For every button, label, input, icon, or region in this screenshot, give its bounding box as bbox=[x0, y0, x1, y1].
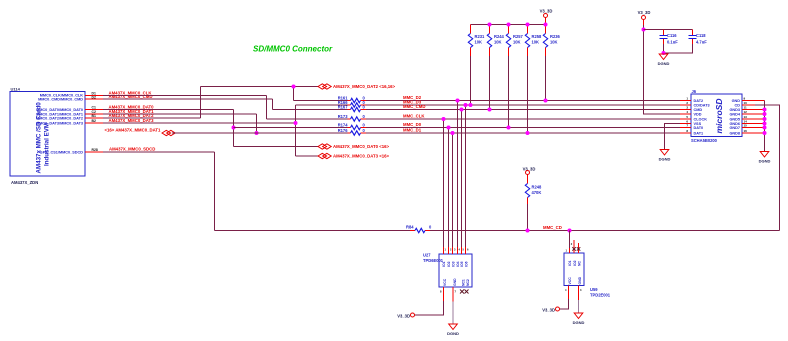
svg-text:R244: R244 bbox=[494, 34, 505, 39]
svg-text:SPI0_CS1/MMC0_SDCD: SPI0_CS1/MMC0_SDCD bbox=[40, 150, 83, 154]
resistor R84 0 bbox=[406, 225, 432, 233]
wire CD pin to right edge loop bbox=[755, 105, 780, 231]
resistor R166 0 bbox=[338, 100, 366, 107]
svg-text:2: 2 bbox=[450, 248, 452, 252]
wire U27 IO2 drop from MMC_D0 bbox=[448, 128, 450, 248]
svg-text:10K: 10K bbox=[475, 40, 483, 45]
resistor R257 10K bbox=[506, 25, 523, 57]
resistor R236 10K bbox=[543, 25, 560, 57]
ESD protection U27 TPD6E001 bbox=[423, 253, 472, 288]
U27 GND wire to DGND bbox=[453, 287, 457, 324]
U59 GND wire to DGND bbox=[579, 286, 583, 313]
svg-text:GND4: GND4 bbox=[729, 112, 740, 116]
svg-text:IO1: IO1 bbox=[568, 260, 572, 266]
svg-text:10K: 10K bbox=[550, 40, 558, 45]
svg-text:0.1uF: 0.1uF bbox=[667, 40, 678, 45]
svg-text:U114: U114 bbox=[11, 87, 21, 92]
junction rail/R257 bbox=[507, 23, 511, 27]
junction rail/R244 bbox=[488, 23, 492, 27]
wire riser CMD bbox=[272, 99, 274, 110]
svg-text:MMC_D1: MMC_D1 bbox=[403, 128, 422, 133]
svg-text:R258: R258 bbox=[532, 34, 543, 39]
svg-text:3: 3 bbox=[686, 106, 688, 110]
svg-text:R231: R231 bbox=[475, 34, 486, 39]
svg-text:3: 3 bbox=[580, 288, 582, 292]
wire MMC0_DAT3 from U114 bbox=[103, 122, 296, 124]
junction DAT1 / MMC_D1 row bbox=[255, 131, 259, 135]
svg-text:DGND: DGND bbox=[658, 61, 670, 66]
svg-text:MMC0_DAT2/MMC0_DAT2: MMC0_DAT2/MMC0_DAT2 bbox=[36, 117, 83, 121]
resistor R244 10K bbox=[487, 25, 504, 57]
junction R236/MMC_D2 bbox=[544, 99, 548, 103]
svg-text:4.7uF: 4.7uF bbox=[696, 40, 707, 45]
svg-text:AM437X_MMC0_SDCD: AM437X_MMC0_SDCD bbox=[109, 147, 155, 152]
wire cap branch bbox=[644, 29, 693, 31]
off-page connector AM437X_MMC0_DAT2 bbox=[318, 84, 396, 89]
svg-text:GND5: GND5 bbox=[729, 117, 740, 121]
svg-text:8: 8 bbox=[440, 290, 442, 294]
svg-text:DAT1: DAT1 bbox=[694, 131, 704, 135]
junctions on ground bus bbox=[763, 108, 767, 136]
junction R244/MMC_CMD bbox=[488, 108, 492, 112]
svg-text:15: 15 bbox=[744, 124, 748, 128]
wire MMC_CMD row left bbox=[273, 109, 348, 111]
svg-text:GND7: GND7 bbox=[729, 126, 740, 130]
wire MMC0_DAT1 from U114 bbox=[103, 113, 257, 115]
wire DAT2 top run to off-page bbox=[201, 86, 319, 88]
junction cap branch bbox=[642, 28, 646, 32]
wire MMC_D0 row left bbox=[234, 127, 348, 129]
wire DAT2 drop to bus bbox=[293, 87, 295, 101]
svg-text:IO2: IO2 bbox=[573, 260, 577, 266]
wire V3_3D down to J6 VDD bbox=[644, 25, 681, 114]
svg-text:2: 2 bbox=[686, 101, 688, 105]
wire MMC0_CLK from U114 to riser bbox=[103, 95, 267, 97]
junction R248/MMC_CD bbox=[526, 229, 530, 233]
junction rail/R258 bbox=[526, 23, 530, 27]
svg-text:CLOCK: CLOCK bbox=[694, 117, 708, 121]
off-page connector AM437X_MMC0_DAT1 bbox=[105, 128, 176, 136]
svg-text:NC1: NC1 bbox=[462, 279, 466, 286]
power V3_3D above R248 bbox=[523, 167, 536, 184]
svg-text:VCC: VCC bbox=[443, 278, 447, 286]
svg-text:1: 1 bbox=[686, 97, 688, 101]
resistor R167 0 bbox=[338, 104, 366, 111]
svg-text:NC: NC bbox=[578, 261, 582, 266]
svg-text:GND: GND bbox=[453, 278, 457, 286]
svg-text:1: 1 bbox=[445, 248, 447, 252]
svg-text:R167: R167 bbox=[338, 104, 349, 109]
wire MMC_D3 row to J6 bbox=[366, 104, 680, 106]
svg-text:7: 7 bbox=[686, 124, 688, 128]
svg-text:MMC0_DAT3/MMC0_DAT3: MMC0_DAT3/MMC0_DAT3 bbox=[36, 121, 83, 125]
svg-text:10K: 10K bbox=[494, 40, 502, 45]
pin stubs U114 (red) bbox=[85, 96, 103, 153]
resistor R248 470K bbox=[525, 184, 542, 205]
svg-text:5: 5 bbox=[463, 248, 465, 252]
svg-text:C118: C118 bbox=[696, 33, 706, 38]
svg-text:10K: 10K bbox=[513, 40, 521, 45]
svg-text:NC2: NC2 bbox=[466, 279, 470, 286]
svg-text:GND8: GND8 bbox=[729, 131, 740, 135]
wire U27 IO4 drop from MMC_D2 bbox=[457, 101, 459, 248]
wire R236 to MMC_D2 bbox=[545, 56, 547, 101]
pin designators on U114 bbox=[92, 92, 98, 152]
capacitor C116 0.1uF bbox=[660, 30, 679, 45]
ground DGND below U27 bbox=[447, 324, 459, 336]
svg-text:U27: U27 bbox=[423, 253, 431, 258]
svg-text:MMC_CD: MMC_CD bbox=[543, 225, 562, 230]
svg-text:SD/MMC0 Connector: SD/MMC0 Connector bbox=[253, 45, 333, 54]
wire J6 ground bus vertical bbox=[764, 101, 766, 152]
wire MMC_D0 row to J6 bbox=[366, 127, 680, 129]
svg-text:10: 10 bbox=[744, 101, 748, 105]
resistor R231 10K bbox=[468, 25, 485, 57]
svg-text:0: 0 bbox=[363, 114, 366, 119]
wire MMC_CLK row to J6 bbox=[366, 118, 680, 120]
wire MMC_CD bottom run bbox=[215, 230, 780, 232]
svg-text:12: 12 bbox=[744, 110, 748, 114]
svg-text:11: 11 bbox=[744, 106, 748, 110]
svg-text:microSD: microSD bbox=[714, 99, 724, 134]
wire MMC_D1 row to J6 bbox=[366, 132, 680, 134]
J6 left pin numbers bbox=[686, 97, 688, 134]
wire R244 to MMC_CMD bbox=[489, 56, 491, 110]
U59 top pin stubs bbox=[570, 240, 579, 253]
capacitor C118 4.7uF bbox=[689, 30, 708, 45]
wire MMC_D1 row left bbox=[172, 132, 348, 134]
wire U27 IO5 drop from MMC_CMD bbox=[461, 110, 463, 248]
wire U27 IO1 drop from MMC_CLK bbox=[443, 119, 445, 247]
svg-text:7: 7 bbox=[455, 290, 457, 294]
svg-text:IO1: IO1 bbox=[442, 261, 446, 267]
resistor R161 0 bbox=[338, 95, 366, 102]
ground DGND below C116 bbox=[658, 54, 670, 66]
svg-text:8: 8 bbox=[686, 129, 688, 133]
junction rail/R236 bbox=[544, 23, 548, 27]
svg-text:R236: R236 bbox=[550, 34, 561, 39]
svg-text:MMC_CMD: MMC_CMD bbox=[403, 104, 425, 109]
svg-text:V3_3D: V3_3D bbox=[540, 9, 553, 14]
wire DAT2 riser up bbox=[200, 87, 202, 119]
resistor R174 0 bbox=[338, 122, 366, 129]
junction D1 tap bbox=[451, 131, 455, 135]
wire DAT0 riser down to off-page row bbox=[233, 110, 235, 147]
wire DAT3 off-page run bbox=[296, 155, 319, 157]
wire R231 to MMC_D3 bbox=[470, 56, 472, 105]
svg-text:DAT0: DAT0 bbox=[694, 126, 704, 130]
junction CLK tap bbox=[442, 117, 446, 121]
junction R258/MMC_D1 bbox=[526, 131, 530, 135]
svg-text:MMC0_DAT0/MMC0_DAT0: MMC0_DAT0/MMC0_DAT0 bbox=[36, 108, 83, 112]
svg-text:R257: R257 bbox=[513, 34, 524, 39]
junction cap gnd bbox=[662, 51, 666, 55]
svg-text:R84: R84 bbox=[406, 225, 414, 230]
svg-text:DGND: DGND bbox=[447, 331, 459, 336]
junction DAT0 / MMC_D0 tap bbox=[232, 126, 236, 130]
connector J6 microSD bbox=[691, 89, 742, 143]
svg-text:IO2: IO2 bbox=[447, 261, 451, 267]
svg-text:R173: R173 bbox=[338, 114, 349, 119]
svg-text:AM437X_MMC0_DAT3: AM437X_MMC0_DAT3 bbox=[109, 118, 155, 123]
svg-text:3: 3 bbox=[454, 248, 456, 252]
wire MMC_D2 row to J6 bbox=[366, 100, 680, 102]
svg-text:R248: R248 bbox=[532, 185, 543, 190]
svg-text:10K: 10K bbox=[532, 40, 540, 45]
no-connect marks U59 bbox=[572, 247, 580, 251]
svg-text:DGND: DGND bbox=[573, 320, 585, 325]
svg-text:16: 16 bbox=[744, 129, 748, 133]
svg-text:0: 0 bbox=[363, 128, 366, 133]
svg-text:2: 2 bbox=[571, 242, 573, 246]
svg-text:U59: U59 bbox=[590, 287, 598, 292]
junction D3 tap bbox=[464, 103, 468, 107]
svg-text:0: 0 bbox=[363, 122, 366, 127]
svg-text:TPD6E001: TPD6E001 bbox=[423, 258, 444, 263]
svg-text:470K: 470K bbox=[532, 190, 542, 195]
U27 top pin numbers bbox=[445, 248, 470, 252]
svg-text:4: 4 bbox=[459, 248, 461, 252]
svg-text:VDD: VDD bbox=[694, 112, 702, 116]
svg-text:AM437X_MMC0_DAT0 <16>: AM437X_MMC0_DAT0 <16> bbox=[333, 144, 390, 149]
svg-text:CD: CD bbox=[735, 103, 741, 107]
junction U59/MMC_CD bbox=[568, 229, 572, 233]
resistor R176 0 bbox=[338, 128, 366, 135]
svg-text:Industrial EVM: Industrial EVM bbox=[44, 123, 51, 166]
svg-text:4: 4 bbox=[565, 288, 567, 292]
svg-text:4: 4 bbox=[686, 110, 688, 114]
ground DGND below J6 bbox=[759, 152, 771, 164]
svg-text:SCHA5B0200: SCHA5B0200 bbox=[691, 138, 718, 143]
wire SDCD drop bbox=[214, 152, 216, 231]
wire riser CLK bbox=[266, 96, 268, 120]
svg-text:AM437X_MMC0_DAT2 <16,16>: AM437X_MMC0_DAT2 <16,16> bbox=[333, 84, 396, 89]
svg-text:TPD2E001: TPD2E001 bbox=[590, 293, 611, 298]
wire MMC0_DAT0 from U114 bbox=[103, 109, 234, 111]
svg-text:GND: GND bbox=[732, 99, 741, 103]
svg-text:AM437X_MMC0_DAT3 <16>: AM437X_MMC0_DAT3 <16> bbox=[333, 154, 390, 159]
svg-text:R28: R28 bbox=[92, 148, 98, 152]
U59 top pin numbers bbox=[566, 242, 573, 253]
wire DAT0 off-page run bbox=[234, 146, 319, 148]
U27 top pin stubs bbox=[444, 247, 466, 254]
U27 VCC wire to V3_3D bbox=[397, 287, 443, 318]
svg-text:IO5: IO5 bbox=[460, 261, 464, 267]
svg-text:1: 1 bbox=[566, 249, 568, 253]
svg-text:MMC_D0: MMC_D0 bbox=[403, 122, 422, 127]
svg-text:5: 5 bbox=[686, 115, 688, 119]
junction R231/MMC_D3 bbox=[469, 103, 473, 107]
junction DAT2 off-page bbox=[292, 85, 296, 89]
junction CMD tap bbox=[460, 108, 464, 112]
svg-text:V3_3D: V3_3D bbox=[542, 307, 555, 312]
svg-text:AM437X_ZDN: AM437X_ZDN bbox=[11, 180, 38, 185]
svg-text:GND3: GND3 bbox=[729, 108, 740, 112]
wire R258 to MMC_D1 bbox=[527, 56, 529, 133]
ground DGND below VSS bbox=[659, 150, 671, 162]
power V3_3D pull-up rail bbox=[471, 9, 553, 25]
svg-text:DGND: DGND bbox=[659, 157, 671, 162]
svg-text:V3_3D: V3_3D bbox=[397, 313, 410, 318]
wire cap bottoms bbox=[664, 44, 693, 53]
off-page connector AM437X_MMC0_DAT0 bbox=[318, 144, 390, 149]
svg-text:VCC: VCC bbox=[568, 277, 572, 285]
svg-text:DGND: DGND bbox=[759, 159, 771, 164]
svg-text:<16> AM437X_MMC0_DAT1: <16> AM437X_MMC0_DAT1 bbox=[105, 128, 161, 133]
wire MMC0_SDCD from U114 bbox=[103, 151, 215, 153]
wire MMC_D3 row left bbox=[296, 104, 348, 106]
wire MMC0_DAT2 from U114 bbox=[103, 117, 201, 119]
wire DAT1 riser bbox=[256, 114, 258, 133]
ground DGND below U59 bbox=[573, 313, 585, 325]
ESD protection U59 TPD2E001 bbox=[564, 253, 611, 298]
svg-text:AM437X_MMC0_CMD: AM437X_MMC0_CMD bbox=[109, 94, 153, 99]
J6 right pin stubs bbox=[742, 101, 765, 134]
svg-text:IO6: IO6 bbox=[465, 261, 469, 267]
svg-text:V3_3D: V3_3D bbox=[638, 10, 651, 15]
svg-text:6: 6 bbox=[467, 248, 469, 252]
svg-text:GND: GND bbox=[578, 276, 582, 284]
svg-text:C116: C116 bbox=[667, 33, 677, 38]
svg-text:CMD: CMD bbox=[694, 108, 703, 112]
wire DAT3 riser bbox=[295, 105, 297, 156]
svg-text:J6: J6 bbox=[692, 89, 697, 94]
resistor R258 10K bbox=[525, 25, 542, 57]
svg-text:R174: R174 bbox=[338, 122, 349, 127]
wire MMC_CMD row to J6 bbox=[366, 109, 680, 111]
wire U59 IO1 to MMC_CD bbox=[569, 231, 571, 249]
svg-text:9: 9 bbox=[744, 97, 746, 101]
U59 VCC wire to V3_3D bbox=[542, 286, 568, 313]
wire MMC0_CMD from U114 to riser bbox=[103, 98, 273, 100]
svg-text:13: 13 bbox=[744, 115, 748, 119]
wire MMC_D2 row left bbox=[294, 100, 348, 102]
svg-text:MMC0_CMD/MMC0_CMD: MMC0_CMD/MMC0_CMD bbox=[38, 98, 83, 102]
svg-text:0: 0 bbox=[429, 225, 432, 230]
power V3_3D top right bbox=[638, 10, 651, 25]
wire VSS to DGND bbox=[665, 124, 681, 150]
svg-text:CD/DAT3: CD/DAT3 bbox=[694, 103, 710, 107]
svg-text:IO3: IO3 bbox=[452, 261, 456, 267]
wire R257 to MMC_D0 bbox=[508, 56, 510, 128]
junction R257/MMC_D0 bbox=[507, 126, 511, 130]
off-page connector AM437X_MMC0_DAT3 bbox=[318, 153, 390, 158]
hierarchical block U114 AM437x MMC/SD Card0 Industrial EVM bbox=[10, 87, 85, 186]
wire R248 to MMC_CD bbox=[527, 204, 529, 231]
junction D0 tap bbox=[447, 126, 451, 130]
wire U27 IO3 drop from MMC_D1 bbox=[452, 133, 454, 247]
svg-text:DAT2: DAT2 bbox=[694, 99, 704, 103]
junction D2 tap bbox=[456, 99, 460, 103]
resistor R173 0 bbox=[338, 114, 366, 121]
no-connect marks U27 NC1 NC2 bbox=[460, 290, 469, 294]
svg-text:R176: R176 bbox=[338, 128, 349, 133]
svg-text:MMC_CLK: MMC_CLK bbox=[403, 114, 425, 119]
J6 right pin numbers bbox=[744, 97, 748, 134]
J6 left pin stubs bbox=[680, 101, 691, 134]
wire MMC_CLK row left bbox=[267, 118, 348, 120]
junction DAT3 riser bbox=[294, 121, 298, 125]
wire U27 IO6 drop from MMC_D3 bbox=[465, 105, 467, 247]
